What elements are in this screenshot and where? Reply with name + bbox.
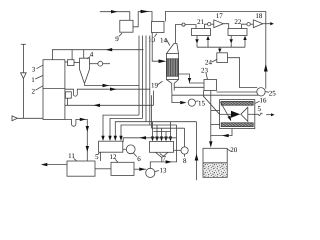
junction circle on riser line: [182, 23, 185, 26]
weave bend to condenser arrow 3: [115, 122, 146, 137]
HX box 22: [228, 29, 247, 36]
label 19 with arrow to cone: [151, 82, 159, 90]
wire stub into membrane 16 lower: [211, 124, 220, 126]
wire nub to cyclone: [74, 62, 80, 64]
settler stipple: [203, 163, 226, 177]
bottom inlet line: [12, 117, 44, 119]
weave bend to condenser arrow 2: [110, 118, 143, 136]
weave vertical c: [145, 36, 147, 122]
box 24: [217, 53, 228, 63]
label 21: [197, 18, 205, 26]
wire box 23 to membrane 16: [203, 91, 219, 115]
blower 8: [181, 147, 188, 154]
svg-text:16: 16: [260, 96, 268, 104]
scrubber 7 funnel: [156, 152, 169, 162]
label 24: [205, 59, 213, 67]
label 4: [90, 51, 94, 59]
box 21 down stub arrow: [196, 36, 198, 48]
svg-text:24: 24: [205, 59, 213, 67]
reactor feed arrow: [152, 33, 158, 62]
label 5: [95, 153, 99, 161]
label 7: [162, 154, 166, 162]
wire gasifier to nub: [65, 61, 68, 63]
label 2: [31, 88, 35, 96]
label 9: [115, 35, 119, 43]
tank 12: [111, 162, 134, 175]
svg-text:25: 25: [269, 89, 277, 97]
label 13: [160, 167, 168, 175]
wire tank 12 to pump 13: [134, 168, 146, 170]
right weave horizontal 2: [150, 124, 177, 126]
scrubber 7 inlet verticals: [153, 122, 171, 137]
cyclone 4: [80, 58, 90, 82]
outlet wire right: [263, 23, 271, 25]
svg-text:3: 3: [32, 66, 36, 74]
return line to gasifier: [65, 104, 154, 106]
wire reactor bottom to pump 15: [172, 91, 180, 103]
box 23: [204, 80, 217, 91]
label 17: [216, 12, 224, 20]
outlet break and arrow with label 5: [255, 113, 258, 115]
svg-text:22: 22: [234, 18, 242, 26]
wire box 24 to compressor 25: [228, 58, 258, 88]
weave bend to condenser arrow 1: [103, 115, 139, 137]
reactor 14 body: [167, 59, 179, 76]
nozzle triangle: [241, 107, 248, 121]
cyclone vent circle: [89, 63, 98, 65]
wire feed line into box 9: [100, 12, 130, 21]
arrow on feed line: [111, 10, 118, 13]
membrane 16 drain to settler: [211, 129, 232, 136]
svg-text:18: 18: [255, 12, 263, 20]
weave vertical d: [149, 36, 151, 126]
compressor 25: [257, 88, 265, 96]
diagonal bleed arrow: [220, 102, 229, 118]
wire 17 to box 22: [223, 24, 228, 29]
water tank 11: [67, 161, 95, 176]
svg-text:1: 1: [31, 76, 35, 84]
wire into box 23 left lower: [174, 86, 204, 88]
pump 6: [126, 145, 135, 154]
label 16: [260, 96, 268, 104]
return line into condenser 5 top: [123, 138, 176, 142]
svg-text:10: 10: [148, 36, 156, 44]
reactor 14 riser to box 21: [174, 25, 182, 44]
wire reactor bottom to compressor 25: [172, 94, 258, 96]
wire box 23 down to settler 20: [210, 91, 212, 142]
label 6: [137, 155, 141, 163]
label 11: [68, 152, 75, 160]
label 12: [110, 153, 118, 161]
manifold wire: [197, 46, 245, 48]
wire stub into membrane 16 upper: [211, 110, 220, 112]
label 8: [183, 157, 187, 165]
drain from gasifier bottom to tank 11: [65, 119, 87, 161]
valve 17: [214, 20, 224, 28]
gasifier divider: [43, 88, 65, 90]
wire reactor outlet to box 23: [179, 74, 205, 83]
right weave horizontal 4: [154, 131, 171, 133]
box 10: [152, 22, 165, 33]
svg-text:20: 20: [230, 146, 238, 154]
svg-text:4: 4: [90, 51, 94, 59]
svg-text:8: 8: [183, 157, 187, 165]
weave bend to condenser arrow 4: [121, 125, 150, 137]
pump 13: [146, 168, 155, 177]
open arrow on inlet: [12, 116, 17, 121]
bottom hatch band: [221, 123, 253, 127]
arrow up on right riser: [264, 64, 268, 72]
weave vertical a: [138, 36, 140, 116]
label 22: [234, 18, 242, 26]
nub box at gasifier top right: [68, 60, 75, 66]
box 22 down stub arrow: [230, 36, 232, 48]
arrow on 9-10 wire: [141, 10, 150, 13]
weave vertical b: [142, 36, 144, 119]
label 3: [32, 66, 36, 74]
label 15: [196, 100, 199, 103]
gasifier box 1-2-3: [43, 60, 65, 120]
svg-text:6: 6: [137, 155, 141, 163]
wire box 9 to box 10: [133, 12, 152, 27]
feed line F1 from cyclone bottom: [85, 83, 140, 86]
label 23: [201, 67, 209, 75]
box 22 to valve 18: [242, 24, 247, 28]
feed line F2 from gasifier with U seal: [65, 89, 150, 96]
wire condenser 5 to tank 11: [100, 153, 102, 162]
valve 18: [253, 20, 262, 28]
wire pump 13 up to scrubber: [150, 125, 176, 168]
wire branch to cyclone top: [83, 50, 85, 59]
valve on tall line: [21, 73, 27, 79]
svg-text:13: 13: [160, 167, 168, 175]
scrubber 7 inlet arrows: [151, 137, 172, 142]
weave vertical e: [152, 91, 154, 129]
svg-text:17: 17: [216, 12, 224, 20]
svg-text:21: 21: [197, 18, 205, 26]
pump 15: [188, 99, 195, 106]
svg-text:2: 2: [31, 88, 35, 96]
label 25: [269, 89, 277, 97]
svg-text:23: 23: [201, 67, 209, 75]
wire tank 11 outflow left: [47, 164, 67, 166]
reactor bottom cone: [167, 80, 179, 91]
membrane box 16: [220, 100, 255, 129]
svg-text:15: 15: [198, 100, 206, 108]
right weave horizontal 1: [146, 121, 197, 123]
left inlet tall line: [22, 44, 24, 118]
arrow left on recycle: [106, 48, 113, 51]
right weave horizontal 3: [152, 127, 185, 129]
label 1: [31, 76, 35, 84]
svg-text:14: 14: [160, 37, 168, 45]
label 20: [230, 146, 238, 154]
label 18: [255, 12, 263, 20]
wire top return from compressor 25 into box 10: [165, 12, 265, 89]
lower nub box on gasifier: [65, 92, 71, 98]
manifold to box 24 arrow: [219, 47, 221, 49]
HX box 21: [192, 29, 211, 36]
reactor 14 top cone: [167, 43, 179, 53]
mid flow arrow: [220, 113, 231, 115]
label 14: [160, 37, 168, 45]
wire tank 11 to tank 12: [95, 168, 111, 170]
wire box 23 to compressor 25: [217, 91, 257, 93]
long riser with up arrow: [196, 122, 198, 181]
scrubber box 7: [150, 142, 174, 153]
svg-text:19: 19: [151, 82, 159, 90]
condenser 5 inlet arrows: [101, 136, 122, 141]
box 21 up stub arrow: [207, 40, 209, 47]
wire recycle to gasifier top: [52, 50, 143, 60]
condenser box 5: [99, 141, 123, 152]
wire branch to nub: [71, 50, 73, 60]
top hatch band: [221, 101, 253, 105]
label 10: [148, 36, 156, 44]
settler box 20: [203, 148, 227, 177]
box 22 up stub arrow: [244, 40, 246, 47]
box 21 to valve 17: [205, 24, 208, 28]
svg-text:5: 5: [258, 105, 262, 113]
wire circle to box 21: [185, 25, 196, 29]
box 9: [120, 20, 133, 32]
